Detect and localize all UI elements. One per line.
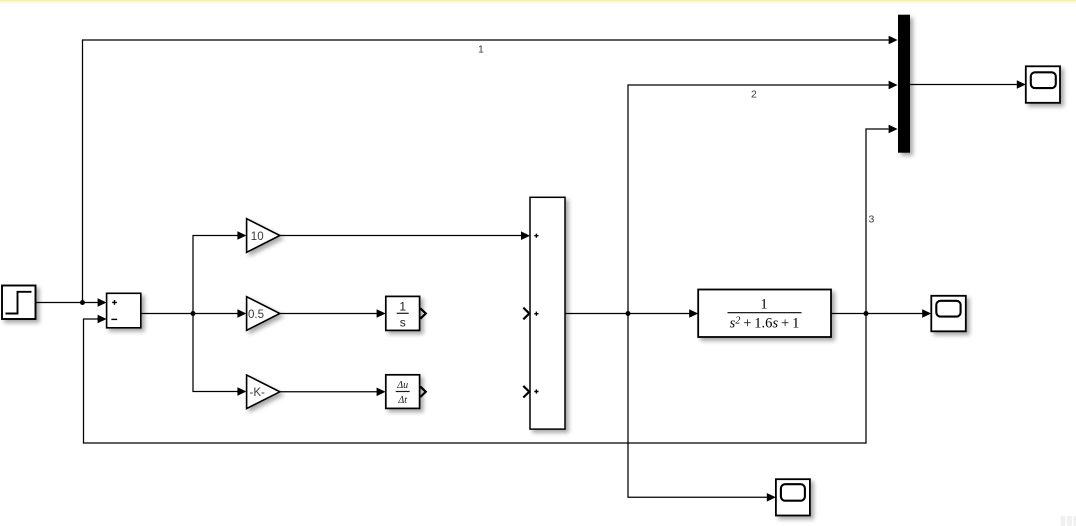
svg-text:1: 1 [399, 300, 406, 314]
scope2 block (control signal) [776, 479, 810, 515]
svg-text:Δt: Δt [397, 395, 407, 406]
wire: sum output with branch node to three gains [141, 236, 238, 392]
minus sign [111, 318, 117, 320]
plus sign port 2 [534, 312, 538, 316]
wire: transfer function output to scope1 [831, 313, 923, 315]
scope1 screen [936, 301, 960, 317]
scope screen [1031, 72, 1056, 88]
wire: gain 0.5 output to integrator [280, 313, 377, 315]
svg-text:-K-: -K- [250, 387, 266, 399]
svg-text:Δu: Δu [396, 380, 408, 391]
node: junction after sum block [626, 311, 631, 316]
wire: sum block output to transfer function [565, 313, 690, 315]
node: junction after transfer function [864, 311, 869, 316]
node: junction on step output (branch to signal 1) [80, 300, 85, 305]
sum block (square, +/-) [107, 293, 141, 328]
step icon [6, 292, 32, 314]
scope1 block (plant output) [931, 296, 966, 332]
wire: signal 2 branch up to mux input 2 [628, 85, 889, 314]
bottom-right grip marks [1061, 516, 1076, 526]
scope2 screen [781, 484, 805, 501]
wire: mux output to scope [910, 84, 1017, 86]
transfer function block 1/(s^2+1.6s+1) [698, 290, 831, 338]
wire: step output to sum + input [36, 302, 99, 304]
unconnected input port 3 chevron [523, 386, 529, 398]
wire: gain -K- output to derivative [280, 391, 377, 393]
svg-text:1: 1 [478, 44, 484, 56]
scope block (on mux output) [1026, 66, 1060, 103]
unconnected input port 2 chevron [523, 308, 529, 320]
wire: gain 10 output to sum block input 1 [280, 235, 522, 237]
derivative block du/dt [386, 375, 420, 409]
sum block (vertical bar, 3 inputs) [530, 197, 565, 429]
svg-text:s2 + 1.6s + 1: s2 + 1.6s + 1 [730, 316, 800, 332]
node: branch junction to gains [191, 311, 196, 316]
gain 10 [247, 219, 280, 253]
wire: signal 1 (branch up and across to mux input 1) [83, 40, 889, 303]
mux block (black bar) [898, 15, 910, 153]
plus sign port 3 [534, 389, 538, 393]
plus sign port 1 [534, 234, 538, 238]
gain -K- [247, 375, 280, 409]
svg-text:2: 2 [751, 89, 757, 101]
plus sign [112, 300, 117, 305]
svg-text:3: 3 [869, 214, 875, 226]
svg-text:10: 10 [251, 231, 264, 243]
gain 0.5 [247, 297, 280, 331]
wire: feedback into sum - input [84, 314, 867, 444]
wire: signal 3 branch up to mux input 3 [866, 129, 889, 314]
integrator block 1/s [386, 296, 420, 330]
svg-text:s: s [400, 316, 406, 330]
unconnected output port of derivative [420, 387, 426, 397]
wire: branch down to scope2 [628, 314, 767, 498]
unconnected output port of integrator [420, 308, 426, 318]
svg-text:1: 1 [760, 297, 767, 313]
step source block [2, 286, 36, 320]
yellow highlight strip [0, 0, 1076, 1]
svg-text:0.5: 0.5 [248, 309, 264, 321]
